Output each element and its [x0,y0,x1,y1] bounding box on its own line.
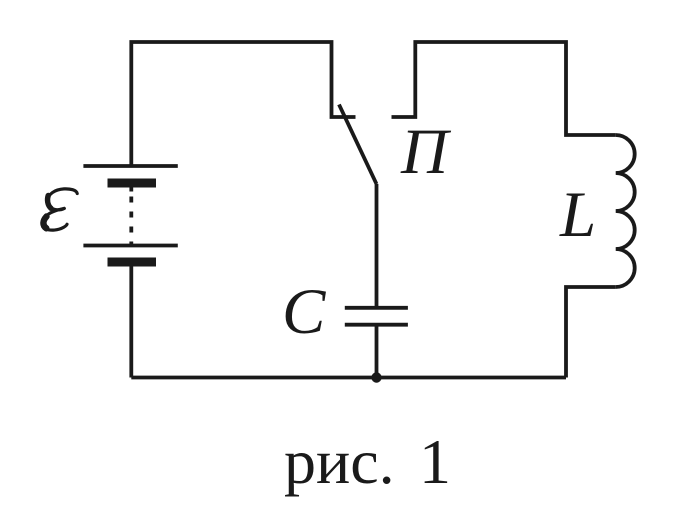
svg-text:1: 1 [419,426,451,497]
svg-text:П: П [400,116,452,188]
svg-text:рис.: рис. [284,426,395,497]
svg-text:L: L [559,179,596,251]
svg-text:C: C [282,276,326,348]
